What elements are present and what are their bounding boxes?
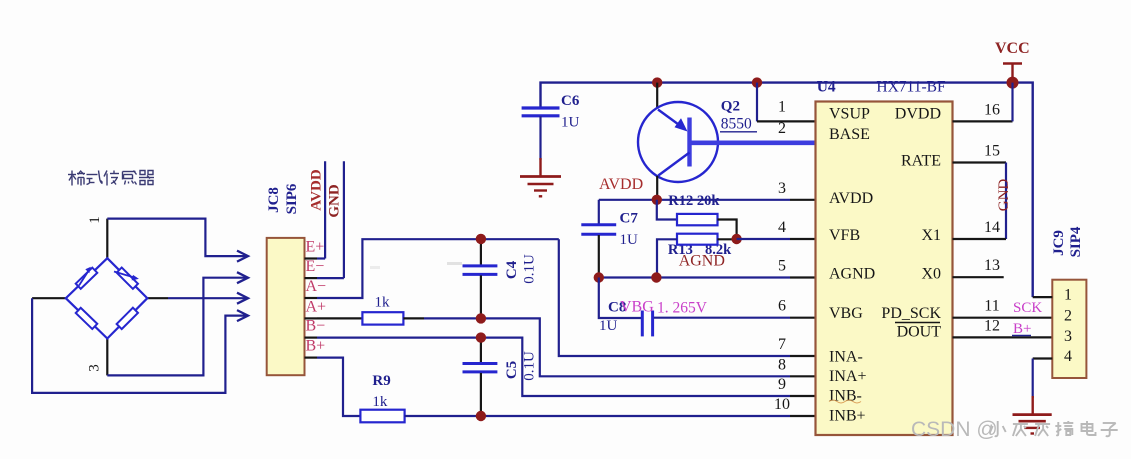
wire: VFB (pin4) (737, 238, 790, 240)
pin 5 stub (790, 276, 816, 278)
junction B+ / C5 bottom (476, 411, 486, 421)
wire: bridge top node riser (106, 219, 108, 259)
svg-text:8550: 8550 (721, 116, 752, 133)
strain arrow top-left (79, 269, 90, 286)
bridge resistor bottom-right (117, 308, 138, 329)
svg-text:R12 20k: R12 20k (668, 193, 720, 209)
arrow to JC8 E+ (237, 251, 248, 262)
svg-text:4: 4 (778, 219, 786, 236)
net GND riser from E- (317, 277, 344, 279)
svg-text:B+: B+ (306, 338, 326, 355)
arrow to JC8 E- (237, 272, 248, 283)
svg-text:VCC: VCC (995, 40, 1030, 57)
svg-text:C4: C4 (504, 260, 520, 279)
junction VCC / rail (1007, 77, 1019, 89)
wire: JC9 pin4 to ground (1033, 357, 1053, 359)
pin 8 stub (790, 375, 816, 377)
wire: B- net to INB- (pin9) (317, 337, 481, 339)
INB- spellcheck squiggle (829, 400, 861, 403)
svg-text:PD_SCK: PD_SCK (881, 305, 941, 322)
svg-text:AVDD: AVDD (829, 190, 873, 207)
strain arrow top-right (114, 272, 137, 279)
svg-text:B−: B− (306, 318, 326, 335)
wire: R13 left lead to AGND (657, 239, 677, 277)
JC8 pin stubs (305, 257, 318, 259)
svg-text:X0: X0 (921, 266, 941, 283)
svg-text:INA+: INA+ (829, 368, 866, 385)
wire: PD_SCK pin11 to JC9 pin2 (953, 317, 1053, 319)
svg-text:SIP6: SIP6 (284, 183, 300, 214)
wire: collector to AVDD node (656, 176, 658, 200)
capacitor C4 0.1U (480, 239, 482, 265)
svg-text:A−: A− (306, 278, 327, 295)
wire: RATE pin15 to GND net (953, 161, 1007, 163)
bridge resistor top-right (strain gauge) (117, 268, 138, 289)
wire: VBG (pin6) (654, 317, 790, 319)
capacitor C7 1U (598, 200, 600, 224)
svg-text:1k: 1k (372, 394, 388, 410)
wire: A+ loop bottom (32, 298, 247, 393)
svg-text:14: 14 (984, 219, 1000, 236)
wire: DOUT pin12 to JC9 pin3 (953, 336, 1053, 338)
wire: C8 left lead (599, 278, 641, 319)
base bar (687, 118, 691, 167)
capacitor C6 1U (522, 106, 560, 109)
junction A+ / C4 bottom (476, 313, 486, 323)
svg-text:Q2: Q2 (721, 99, 740, 115)
junction VFB node (731, 234, 741, 244)
junction rail / Q2 emitter (652, 77, 662, 87)
pin 4 stub (790, 238, 816, 240)
wire: emitter riser (656, 83, 658, 109)
svg-text:DOUT: DOUT (897, 324, 942, 341)
wire: X0 pin13 stub (953, 276, 1004, 278)
svg-text:2: 2 (1064, 307, 1072, 324)
svg-text:16: 16 (984, 101, 1000, 118)
svg-text:10: 10 (774, 396, 790, 413)
svg-text:1: 1 (1064, 287, 1072, 304)
svg-text:5: 5 (778, 258, 786, 275)
svg-text:9: 9 (778, 376, 786, 393)
connector JC8 SIP6 body (267, 238, 305, 375)
junction A- / C4 top (476, 234, 486, 244)
wire: A- net JC8 to INA- (pin7) (317, 239, 559, 298)
svg-text:AVDD: AVDD (599, 176, 643, 193)
junction rail / VSUP (752, 77, 762, 87)
label: bridge sensor title 桥式传感器 (drawn as strokes) (68, 171, 154, 186)
wire: top VSUP rail (541, 83, 1033, 298)
op-amp IC U4 HX711-BF body (816, 102, 953, 436)
svg-text:15: 15 (984, 143, 1000, 160)
junction AGND / C7 (594, 272, 604, 282)
svg-text:INB+: INB+ (829, 408, 866, 425)
ground symbol bottom right (1031, 396, 1033, 415)
svg-text:1: 1 (778, 98, 786, 115)
wire: R12 right lead (718, 220, 737, 240)
svg-text:1U: 1U (620, 232, 639, 248)
svg-text:3: 3 (1064, 328, 1072, 345)
bridge diamond edges (66, 258, 148, 338)
resistor R9 1k on B+ line (317, 358, 360, 416)
svg-text:0.1U: 0.1U (522, 351, 538, 381)
junction AVDD node (652, 195, 662, 205)
svg-text:VBG: VBG (620, 299, 654, 316)
svg-text:3: 3 (87, 364, 103, 372)
svg-text:SIP4: SIP4 (1068, 226, 1084, 257)
ground symbol below C6 (539, 158, 541, 177)
wire: B+ net to INB+ (pin10) (481, 415, 790, 417)
resistor R8 1k on A+ line (317, 317, 362, 319)
svg-text:RATE: RATE (901, 153, 941, 170)
svg-text:12: 12 (984, 317, 1000, 334)
svg-text:C5: C5 (504, 361, 520, 379)
svg-text:1. 265V: 1. 265V (657, 300, 708, 317)
svg-text:C6: C6 (561, 93, 580, 109)
DOUT overline (895, 322, 940, 324)
svg-text:8: 8 (778, 356, 786, 373)
svg-text:AGND: AGND (829, 266, 875, 283)
svg-text:2: 2 (778, 120, 786, 137)
arrow to JC8 A+ (237, 310, 248, 321)
wire: bridge left node to outer loop (32, 297, 66, 299)
junction B- / C5 top (476, 332, 486, 342)
pin 10 stub (790, 415, 816, 417)
wire: R13 right lead (718, 238, 737, 240)
wire: DVDD pin16 to VCC rail (953, 120, 1013, 122)
svg-text:0.1U: 0.1U (522, 254, 538, 284)
svg-text:A+: A+ (306, 298, 327, 315)
junction AGND / R13 (651, 272, 661, 282)
arrow to JC8 A- (237, 293, 248, 304)
svg-text:CSDN @: CSDN @ (911, 418, 998, 441)
svg-text:JC9: JC9 (1051, 230, 1067, 256)
svg-text:E−: E− (306, 258, 325, 275)
emitter arrow (658, 110, 684, 129)
svg-text:GND: GND (327, 184, 343, 218)
faint watermark residue dashes (447, 262, 462, 265)
svg-text:AVDD: AVDD (309, 169, 325, 211)
svg-text:VFB: VFB (829, 227, 860, 244)
wire: bridge right node to A- arrow (147, 297, 168, 299)
svg-text:VSUP: VSUP (829, 106, 870, 123)
wire: AVDD (pin3) (599, 199, 790, 201)
svg-text:R9: R9 (372, 373, 390, 389)
8550 underline (720, 131, 757, 133)
wire: VSUP pin1 (756, 83, 758, 122)
wire: X1 pin14 to GND net (953, 238, 1007, 240)
svg-text:B+: B+ (1013, 321, 1031, 337)
svg-text:6: 6 (778, 298, 786, 315)
svg-text:1: 1 (87, 216, 103, 224)
pin 3 stub (790, 199, 816, 201)
svg-text:11: 11 (984, 298, 999, 315)
svg-text:GND: GND (996, 179, 1012, 212)
wire: E+ path from bridge node1 (107, 219, 247, 257)
svg-text:INB-: INB- (829, 388, 862, 405)
svg-text:X1: X1 (921, 227, 941, 244)
svg-text:1k: 1k (375, 295, 391, 311)
wire: AGND (pin5) (599, 276, 790, 278)
svg-text:BASE: BASE (829, 126, 870, 143)
wire: A+ net to INA+ (pin8) (481, 318, 790, 376)
pin 6 stub (790, 317, 816, 319)
svg-text:SCK: SCK (1013, 300, 1042, 316)
svg-text:3: 3 (778, 180, 786, 197)
svg-text:HX711-BF: HX711-BF (876, 79, 946, 96)
svg-text:7: 7 (778, 336, 786, 353)
bridge resistor bottom-left (76, 308, 98, 329)
svg-text:E+: E+ (306, 239, 325, 256)
pin 9 stub (790, 395, 816, 397)
svg-text:C7: C7 (620, 210, 639, 226)
capacitor C5 0.1U (480, 338, 482, 363)
thick base wire to U4 BASE pin2 (692, 141, 816, 146)
pin 7 stub (790, 355, 816, 357)
wire: bridge bottom node to E- arrow (106, 339, 108, 376)
connector JC9 SIP4 body (1052, 280, 1086, 378)
svg-text:AGND: AGND (679, 253, 725, 270)
svg-text:1U: 1U (561, 115, 580, 131)
wire: R12 left lead (657, 200, 677, 220)
svg-text:13: 13 (984, 257, 1000, 274)
svg-text:1U: 1U (599, 318, 618, 334)
svg-text:DVDD: DVDD (895, 106, 941, 123)
svg-text:4: 4 (1064, 348, 1072, 365)
wire: VCC to JC9 pin1 (1033, 296, 1053, 298)
bridge resistor top-left (strain gauge) (76, 268, 98, 289)
svg-text:U4: U4 (817, 79, 836, 96)
collector (658, 153, 689, 176)
net AVDD riser from E+ (317, 257, 325, 259)
svg-text:JC8: JC8 (266, 187, 282, 213)
svg-text:INA-: INA- (829, 349, 863, 366)
B+ underline (1012, 335, 1031, 337)
svg-text:VBG: VBG (829, 305, 863, 322)
